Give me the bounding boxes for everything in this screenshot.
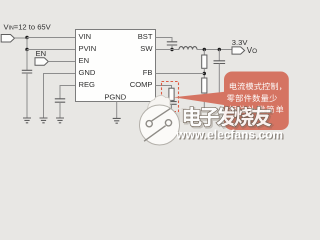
port VIN (1, 35, 14, 43)
ground PGND (113, 118, 121, 123)
wire C5 down (171, 104, 173, 111)
node VIN junction (25, 36, 28, 39)
bootstrap capacitor C3 (167, 42, 177, 45)
svg-text:PGND: PGND (104, 92, 126, 101)
resistor R2 (202, 78, 207, 93)
wire junction down to input capacitor (26, 50, 28, 71)
wire C1 to ground (26, 73, 28, 118)
wire FB (156, 73, 205, 75)
node output junction (218, 48, 221, 51)
wire to output capacitor (218, 50, 220, 61)
svg-text:www.elecfans.com: www.elecfans.com (175, 127, 283, 141)
annotation highlight box around compensation network (162, 82, 179, 112)
compensation resistor R3 (169, 88, 174, 100)
svg-text:SW: SW (140, 44, 153, 53)
svg-text:COMP: COMP (130, 80, 153, 89)
wire VIN port to junction (15, 37, 28, 39)
ground GND (40, 118, 48, 123)
IC U1 buck regulator (76, 30, 156, 102)
ground input (23, 118, 31, 123)
wire to R1 (203, 50, 205, 56)
node SW/BST junction (170, 48, 173, 51)
wire SW pin to inductor (156, 49, 180, 51)
wire junction to PVIN pin (27, 49, 76, 51)
wire PGND to ground (116, 102, 118, 119)
input capacitor C1 (22, 70, 32, 73)
svg-text:VO: VO (247, 46, 257, 55)
wire REG pin (60, 86, 76, 100)
compensation capacitor C5 (166, 102, 176, 105)
output capacitor C4 (214, 61, 226, 64)
port EN (35, 58, 48, 66)
wire junction to VIN pin (27, 37, 76, 39)
inductor L1 (179, 47, 197, 50)
resistor R1 (202, 55, 207, 68)
REG bypass capacitor C2 (55, 99, 65, 102)
wire C2 to ground (59, 102, 61, 118)
wire C3 to SW node (171, 45, 173, 50)
node FB tap junction (203, 72, 206, 75)
wire C4 down (218, 64, 220, 97)
svg-text:VIN: VIN (79, 32, 92, 41)
wire GND pin to ground (44, 74, 76, 119)
svg-text:EN: EN (36, 49, 47, 58)
svg-text:FB: FB (143, 68, 153, 77)
wire R1 to FB tap (203, 68, 205, 78)
svg-text:GND: GND (79, 68, 96, 77)
port Vo (232, 47, 245, 54)
wire inductor to output (197, 49, 232, 51)
wire COMP pin (156, 86, 172, 89)
svg-text:EN: EN (79, 56, 90, 65)
svg-text:BST: BST (138, 32, 153, 41)
wire VIN junction down to PVIN junction (26, 38, 28, 50)
wire R2 down (203, 93, 205, 110)
node feedback divider top junction (203, 48, 206, 51)
wire R3 to C5 (171, 100, 173, 101)
ground REG (56, 118, 64, 123)
svg-text:REG: REG (79, 80, 96, 89)
wire BST pin (156, 38, 173, 43)
node PVIN junction (25, 48, 28, 51)
wire EN (48, 61, 75, 63)
svg-text:PVIN: PVIN (79, 44, 97, 53)
